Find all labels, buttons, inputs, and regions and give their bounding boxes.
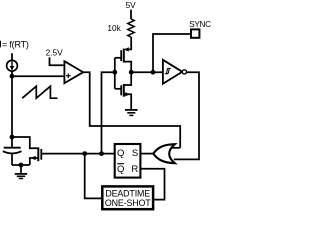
svg-text:S: S: [132, 148, 138, 159]
ground inverter: [125, 110, 138, 116]
node inverter output: [129, 70, 134, 75]
wire 5V lead: [130, 10, 132, 19]
current source I1: [7, 60, 18, 71]
sr latch U2: [115, 144, 141, 178]
wire OR top input stub: [170, 147, 181, 149]
comparator U1: [64, 61, 83, 83]
transistor Q2 nmos: [115, 72, 131, 110]
svg-text:2.5V: 2.5V: [46, 47, 64, 57]
wire inverter output row: [131, 71, 163, 73]
terminal SYNC: [191, 29, 199, 37]
plus sign: [66, 73, 71, 78]
wire Q line to mosfet gate: [41, 153, 114, 155]
svg-text:Q: Q: [117, 148, 124, 159]
wire schmitt output to OR bottom input: [174, 72, 199, 159]
wire one-shot input: [85, 154, 103, 199]
wire comparator output to OR top input: [83, 72, 180, 148]
node inverter input: [112, 70, 117, 75]
wire 2.5V to minus input: [50, 57, 65, 65]
one-shot box: [102, 186, 153, 209]
svg-text:R: R: [131, 164, 138, 175]
svg-text:ONE-SHOT: ONE-SHOT: [105, 198, 151, 208]
sawtooth waveform: [22, 86, 57, 98]
transistor Q3 discharge mosfet: [12, 137, 41, 165]
ground main: [15, 165, 27, 179]
wire RT lead: [11, 53, 13, 60]
wire SYNC branch: [153, 34, 191, 72]
node CT cap junction: [10, 135, 15, 140]
wire gate rail: [114, 58, 116, 89]
svg-text:5V: 5V: [126, 0, 137, 10]
wire comparator plus input: [12, 75, 64, 77]
svg-text:10k: 10k: [107, 23, 121, 33]
node SYNC tap: [151, 70, 156, 75]
svg-text:SYNC: SYNC: [189, 20, 211, 29]
wire bottom bus: [12, 164, 30, 166]
node CT (comparator feed): [10, 74, 15, 79]
or gate U3: [153, 144, 175, 163]
wire CT rail: [11, 71, 13, 138]
wire R input: [140, 169, 164, 200]
transistor Q1 pmos: [115, 37, 131, 72]
svg-text:I = f(RT): I = f(RT): [0, 39, 29, 49]
node one-shot tap: [82, 151, 87, 156]
wire latch Q to inverter input: [102, 72, 115, 153]
wire S input: [140, 153, 153, 155]
schmitt inverter U4: [163, 60, 187, 84]
svg-text:Q: Q: [117, 164, 124, 175]
capacitor CT: [3, 137, 22, 165]
resistor 10k: [128, 19, 134, 37]
node inverter tap: [99, 151, 104, 156]
node ground tap: [19, 163, 24, 168]
